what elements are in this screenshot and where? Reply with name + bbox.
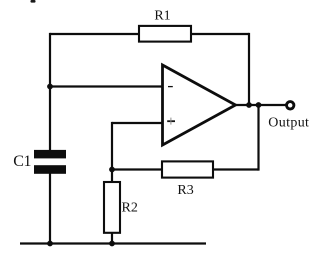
wire: R2 bottom stub to ground rail xyxy=(111,233,113,245)
node A junction: R2 / R3 / plus input xyxy=(109,167,115,173)
output terminal (open circle) xyxy=(287,102,294,109)
svg-text:R3: R3 xyxy=(177,183,193,198)
op-amp U1 xyxy=(163,65,236,145)
svg-text:C1: C1 xyxy=(13,153,31,170)
svg-text:Output: Output xyxy=(268,115,309,130)
junction: output node to R3 xyxy=(256,102,262,108)
wire: vertical drop from plus input corner to node A xyxy=(111,122,113,170)
svg-text:R1: R1 xyxy=(154,8,170,23)
wire: left rail lower segment (C1 bottom plate down to ground rail) xyxy=(49,173,51,244)
resistor R2 (vertical, to ground) xyxy=(104,182,120,233)
resistor R1 (top feedback) xyxy=(139,26,191,42)
junction: ground rail / R2 xyxy=(109,241,115,247)
svg-text:R2: R2 xyxy=(122,200,138,215)
wire: inverting input feed (left rail to op-amp minus input) xyxy=(50,85,163,87)
capacitor C1 (two filled plates on left rail) xyxy=(34,150,66,174)
wire: left rail upper segment (top corner down to C1 top plate) xyxy=(49,33,51,151)
junction: left rail / inverting input xyxy=(47,84,53,90)
junction: output node to R1 xyxy=(246,102,252,108)
wire: top feedback rail (left corner to right corner through R1) xyxy=(50,33,249,35)
wire: R1 feedback vertical from top rail down to output node xyxy=(248,33,250,105)
resistor R3 (horizontal, to non-inverting node) xyxy=(162,161,213,177)
wire: non-inverting input feed (corner to op-amp plus input) xyxy=(112,122,163,124)
stray ink mark at top edge xyxy=(31,0,36,3)
wire: bottom ground rail xyxy=(20,242,206,244)
wire: R3 right terminal to feedback corner xyxy=(213,168,259,170)
wire: R2 top stub from node A xyxy=(111,170,113,183)
wire: node A to R3 left terminal xyxy=(112,168,162,170)
wire: op-amp output to output terminal xyxy=(234,104,286,106)
wire: feedback vertical from R3 corner up to output node xyxy=(257,105,259,171)
junction: ground rail / left rail xyxy=(47,241,53,247)
